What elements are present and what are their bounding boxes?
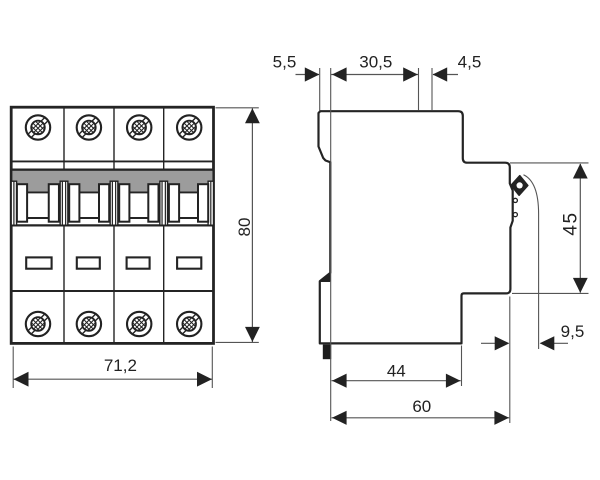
arrowhead right (305, 67, 320, 81)
svg-text:30,5: 30,5 (359, 52, 392, 71)
dimension line (331, 74, 418, 76)
toggle band gray field (12, 171, 212, 193)
arrowhead left (14, 372, 29, 387)
pole divider line 3 (163, 108, 165, 344)
reference line bottom (512, 292, 589, 294)
svg-text:9,5: 9,5 (561, 322, 585, 341)
leader arrow left (points right) (481, 342, 509, 344)
label window pole 4 (177, 257, 201, 268)
svg-text:4,5: 4,5 (458, 52, 482, 71)
extension line right (211, 347, 213, 389)
tie-bar bottom line (12, 217, 214, 219)
rivet dot 2 (513, 213, 517, 217)
arrowhead down (573, 278, 588, 293)
extension line at x=418.5 (418, 68, 420, 111)
toggle band top edge (11, 169, 213, 172)
toggle handle 2b (99, 184, 109, 222)
arrowhead up (573, 164, 588, 179)
breaker side profile (319, 111, 513, 343)
DIN clip tab (black, below) (323, 345, 331, 360)
reference line top (510, 162, 589, 164)
svg-text:45: 45 (560, 211, 581, 235)
bottom screw terminal pole 2 (77, 312, 101, 336)
extension line at x=319.7 (319, 68, 321, 111)
arrowhead left (433, 67, 448, 81)
right half divider wall (208, 181, 213, 225)
divider wall at pole 1/2 (60, 181, 68, 225)
toggle handle 4b (198, 184, 208, 222)
extension line top (216, 107, 259, 109)
dimension line (332, 380, 461, 382)
dimension line (579, 164, 581, 293)
bottom screw terminal pole 3 (127, 312, 151, 336)
pole divider line 1 (63, 108, 65, 344)
svg-text:80: 80 (235, 218, 254, 237)
tab top edge line (320, 280, 331, 282)
label window pole 3 (127, 257, 150, 268)
toggle handle 4a (169, 184, 179, 222)
extension line right (461, 346, 463, 387)
arrowhead down (245, 327, 260, 342)
terminal clamp diamond (511, 176, 528, 196)
toggle handle 3b (148, 184, 158, 222)
arrowhead left (332, 411, 347, 425)
leader line (296, 74, 320, 76)
svg-text:60: 60 (412, 397, 431, 416)
svg-text:44: 44 (387, 361, 406, 380)
bottom screw terminal pole 1 (26, 312, 50, 336)
extension line right (509, 297, 511, 424)
bottom screw terminal pole 4 (177, 312, 201, 336)
left half divider wall (11, 181, 16, 225)
divider wall at pole 2/3 (110, 181, 118, 225)
extension line bottom (216, 341, 259, 343)
toggle handle 2a (69, 184, 79, 222)
svg-text:5,5: 5,5 (273, 52, 297, 71)
arrowhead right (403, 67, 418, 81)
breaker body outline (11, 107, 213, 343)
arrowhead up (245, 108, 260, 123)
top screw terminal pole 4 (177, 115, 201, 139)
extension line at x=432 (431, 68, 433, 111)
dimension line (332, 417, 510, 419)
arrowhead right (494, 411, 509, 425)
arrowhead left (332, 67, 347, 81)
leader line (433, 74, 458, 76)
label window pole 2 (77, 257, 100, 268)
divider wall at pole 3/4 (160, 181, 168, 225)
extension line left (12, 347, 14, 389)
arrowhead right (197, 372, 212, 387)
dimension line (251, 108, 253, 342)
svg-text:71,2: 71,2 (104, 356, 137, 375)
leader arrow right (points left) (541, 342, 569, 344)
toggle handle 1b (49, 184, 59, 222)
tie-bar top line (12, 191, 214, 193)
top screw terminal pole 2 (77, 115, 101, 139)
clamp screw hole (517, 182, 523, 188)
pole divider line 2 (113, 108, 115, 344)
top screw terminal pole 3 (127, 115, 151, 139)
toggle handle 1a (17, 184, 27, 222)
top screw terminal pole 1 (26, 115, 50, 139)
extension line at x=330.7 (runs through drawing) (330, 68, 332, 421)
DIN clip wedge (upper) (320, 272, 331, 281)
arrowhead right (446, 374, 461, 388)
rivet dot 1 (513, 198, 517, 202)
label window pole 1 (26, 257, 51, 268)
arrowhead left (332, 374, 347, 388)
busbar clamp swing arc (524, 175, 539, 349)
bottom terminal compartment line (11, 290, 213, 292)
toggle band bottom edge (11, 224, 213, 226)
toggle handle 3a (119, 184, 129, 222)
top terminal compartment line (11, 160, 213, 162)
dimension line (13, 378, 212, 380)
